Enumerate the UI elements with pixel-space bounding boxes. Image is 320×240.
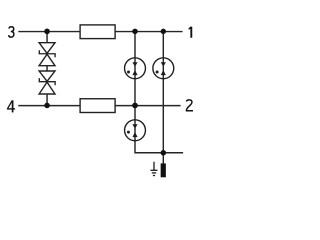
wire terminal 4 to resistor R2 [18, 105, 80, 107]
junction dot wire1/column2 [161, 29, 166, 34]
wire ground rail dot to earth terminal [162, 153, 164, 164]
wire resistor R1 to terminal 1 [115, 31, 183, 33]
F3 lower arrowhead [132, 132, 137, 137]
F2 lower arrowhead [161, 70, 166, 75]
terminal label 4 [7, 100, 15, 112]
TVS diode unit 1 upper triangle [39, 43, 55, 54]
TVS diode unit 2 lower triangle [39, 82, 55, 94]
wire column2 from node1 through F2 and wire2 crossing to ground rail [162, 32, 164, 153]
F3 gas-filled dot [127, 131, 130, 134]
TVS diode unit 2 zener bar [39, 78, 55, 85]
wire column1 from node1 through F1, node2, F3 to ground rail corner [135, 32, 142, 153]
F1 upper arrowhead [132, 62, 137, 66]
resistor R2 [80, 99, 115, 113]
wire TVS chain stem bottom [46, 94, 48, 106]
junction dot wire2/column1 [132, 103, 138, 109]
terminal label 2 [186, 100, 193, 111]
terminal label 1 [189, 27, 193, 38]
junction dot node 3/TVS chain [44, 29, 50, 35]
gas discharge tube F1 circle [125, 58, 146, 79]
gas discharge tube F3 circle [125, 120, 146, 141]
F1 gas-filled dot [127, 71, 130, 74]
gas discharge tube F2 circle [153, 58, 174, 79]
TVS diode unit 1 zener bar [39, 50, 55, 57]
earth ground symbol [151, 162, 158, 176]
TVS diode unit 2 upper triangle [39, 71, 55, 81]
terminal label 3 [9, 27, 14, 37]
TVS diode unit 1 lower triangle [39, 54, 55, 65]
wire TVS chain stem middle [46, 66, 48, 71]
resistor R1 [80, 25, 115, 39]
F2 gas-filled dot [156, 71, 159, 74]
junction dot ground rail/column2 [161, 150, 167, 156]
F3 upper arrowhead [132, 124, 137, 128]
junction dot wire1/column1 [132, 29, 138, 34]
earth terminal black bar [161, 163, 166, 177]
wire TVS chain stem top [46, 32, 48, 43]
wire terminal 3 to resistor R1 [18, 31, 80, 33]
F1 lower arrowhead [132, 70, 137, 75]
F2 upper arrowhead [161, 62, 166, 66]
wire ground rail horizontal [135, 152, 183, 154]
junction dot node 4/TVS chain [44, 103, 50, 109]
wire resistor R2 to terminal 2 [115, 105, 181, 107]
